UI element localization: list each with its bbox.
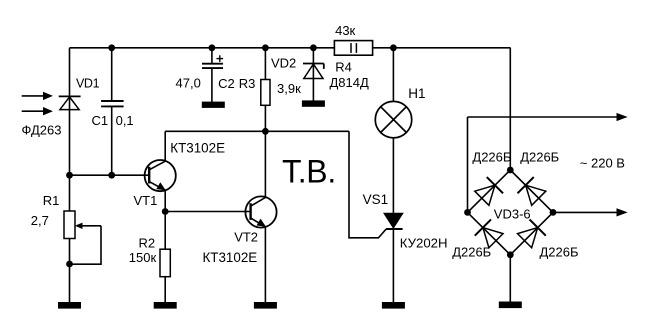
svg-text:C1: C1 <box>92 113 109 128</box>
resistor R2 <box>160 249 170 277</box>
node bridge top <box>507 167 514 174</box>
bridge edge bottom-left <box>468 212 511 254</box>
svg-text:Д226Б: Д226Б <box>452 245 491 260</box>
R1 wiper arrow <box>70 223 102 265</box>
node collector bus / R3 <box>262 128 269 135</box>
wire top supply rail <box>70 47 511 49</box>
node R1 wiper tie <box>66 261 73 268</box>
wire VT2 emitter to ground <box>264 227 266 303</box>
svg-text:R2: R2 <box>139 235 156 250</box>
svg-text:47,0: 47,0 <box>176 76 201 91</box>
wire collector bus <box>165 130 349 132</box>
svg-text:КТ3102Е: КТ3102Е <box>170 140 225 155</box>
svg-text:2,7: 2,7 <box>31 213 49 228</box>
svg-text:Т.В.: Т.В. <box>282 154 336 190</box>
node emitter junction <box>162 208 169 215</box>
bridge edge top-right <box>510 170 553 212</box>
svg-text:КТ3102Е: КТ3102Е <box>203 250 258 265</box>
wire VT1 base <box>70 174 150 176</box>
wire C2 branch <box>211 48 213 64</box>
svg-text:43к: 43к <box>335 23 355 38</box>
svg-text:H1: H1 <box>408 86 425 101</box>
wire bridge left corner riser <box>467 117 469 212</box>
wire H1 to VS1 anode <box>392 138 394 213</box>
arrowhead AC output 1 <box>617 113 628 121</box>
ground under VS1 <box>382 302 405 309</box>
svg-text:150к: 150к <box>129 250 157 265</box>
svg-text:R3: R3 <box>239 76 256 91</box>
photodiode VD1 <box>59 96 81 109</box>
svg-text:~ 220 В: ~ 220 В <box>580 155 625 170</box>
resistor R1 (trimmer body) <box>64 211 75 239</box>
svg-text:0,1: 0,1 <box>116 113 134 128</box>
ground under VT2 <box>254 302 277 309</box>
ground under R2 <box>154 302 177 309</box>
svg-text:ФД263: ФД263 <box>22 123 62 138</box>
svg-text:Д226Б: Д226Б <box>520 150 559 165</box>
node base wire / R1 <box>66 172 73 179</box>
node top rail / H1 <box>390 44 397 51</box>
thyristor VS1 <box>383 213 404 229</box>
svg-text:VD3-6: VD3-6 <box>494 207 531 222</box>
node base wire / C1 <box>108 172 115 179</box>
transistor VT1 <box>145 160 176 191</box>
bridge edge top-left <box>468 170 511 212</box>
wire AC output line 1 <box>468 116 619 118</box>
svg-text:Д226Б: Д226Б <box>540 245 579 260</box>
ground under C2 <box>202 102 225 108</box>
svg-text:VT2: VT2 <box>234 230 258 245</box>
wire right rail down to bridge top <box>509 48 511 170</box>
wire VD1 branch vertical <box>69 48 71 303</box>
wire H1 drop from rail <box>392 48 394 102</box>
node bridge bottom <box>507 251 514 258</box>
wire R3 top <box>264 48 266 80</box>
node top rail / R3 <box>262 44 269 51</box>
wire VS1 cathode to ground <box>392 229 394 303</box>
svg-text:VS1: VS1 <box>363 192 389 207</box>
node top rail / VD2 <box>310 44 317 51</box>
bridge diode bottom-left <box>475 219 504 248</box>
svg-text:R4: R4 <box>335 59 352 74</box>
svg-text:VT1: VT1 <box>134 193 158 208</box>
wire VT1 collector drop <box>164 131 166 161</box>
wire emitter to VT2 base <box>165 211 250 213</box>
wire C2 to ground <box>211 68 213 103</box>
wire R2 top <box>164 212 166 250</box>
wire R3 bottom <box>264 105 266 131</box>
wire C1 branch upper <box>111 48 113 101</box>
resistor R3 <box>261 80 270 106</box>
wire VS1 gate drop <box>349 131 386 238</box>
svg-text:C2: C2 <box>218 76 235 91</box>
resistor R4 <box>334 41 372 56</box>
svg-text:Д226Б: Д226Б <box>472 150 511 165</box>
ground under VD2 <box>302 100 325 106</box>
wire R2 bottom to ground <box>164 277 166 303</box>
svg-text:R1: R1 <box>43 193 60 208</box>
ground under bridge <box>499 302 522 309</box>
capacitor C1 <box>101 101 124 106</box>
svg-text:VD2: VD2 <box>271 55 296 70</box>
transistor VT2 <box>245 196 276 227</box>
svg-text:3,9к: 3,9к <box>277 81 301 96</box>
bridge diode top-right <box>518 177 547 206</box>
svg-text:VD1: VD1 <box>76 77 100 91</box>
ground under R1 <box>58 302 81 309</box>
bridge edge bottom-right <box>510 212 553 254</box>
light arrow 2 into photodiode <box>22 107 53 115</box>
node bridge right <box>550 209 557 216</box>
node top rail / C2 <box>209 44 216 51</box>
node top rail / C1 <box>108 44 115 51</box>
wire AC output line 2 <box>553 211 618 213</box>
wire VT2 collector riser <box>264 131 266 197</box>
lamp H1 <box>375 101 411 137</box>
bridge diode bottom-right <box>516 219 545 248</box>
wire VT1 emitter drop <box>164 190 166 212</box>
light arrow 1 into photodiode <box>22 92 53 100</box>
svg-text:КУ202Н: КУ202Н <box>400 235 448 250</box>
bridge diode top-left <box>474 177 503 206</box>
wire C1 branch lower <box>111 106 113 175</box>
wire bridge bottom to ground <box>509 255 511 303</box>
arrowhead AC output 2 <box>617 208 628 216</box>
zener diode VD2 <box>303 64 324 79</box>
capacitor C2 (electrolytic) <box>202 55 223 68</box>
node bridge left <box>464 209 471 216</box>
svg-text:Д814Д: Д814Д <box>330 75 369 90</box>
wire VD2 branch <box>312 48 314 102</box>
